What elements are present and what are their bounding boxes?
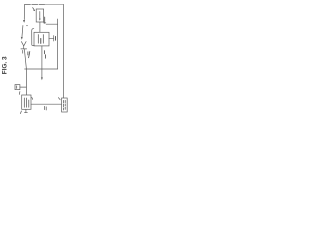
svg-text:FIG. 3: FIG. 3 (2, 56, 9, 74)
